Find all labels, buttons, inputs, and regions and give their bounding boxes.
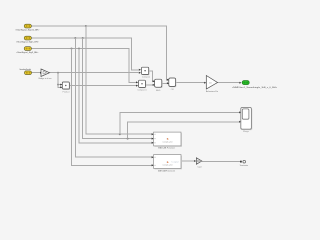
svg-text:1/n: 1/n [209,83,212,85]
terminator input port [240,161,242,163]
wire from gain G1 output to goto tag GT1 [218,82,240,84]
from tag F4 (yellow) [24,71,31,75]
node J7 on wire L3 [78,48,80,50]
wire from U2 output to logic block C input 2 [145,84,154,86]
wire branch down to product block U3 inputs [58,73,62,85]
wire L3 branch down to MATLAB2 input 2 [72,49,154,166]
terminator block [243,160,246,163]
MATLAB function block 1 [154,132,182,147]
wire L1 from tag F1 to logic block U4 top input [31,26,169,80]
port arrow into MATLAB1 in3 [152,142,154,144]
port arrow into MATLAB1 in2 [152,138,154,140]
svg-text:Cast: Cast [197,165,202,168]
wire from U1 output to logic block C input 1 [149,71,154,81]
wire from logic block U4 output to gain G1 [176,82,205,84]
port arrow into U4 in1 [167,79,169,81]
svg-text:Merge: Merge [243,131,250,133]
wire from logic block C output to logic block U4 input 2 [162,82,169,84]
tall block (multiport) [241,107,253,130]
node J9 [57,84,59,86]
block U2 (relational) [139,80,147,88]
cast triangle [196,158,201,164]
port arrow into U2 in1 [136,81,138,83]
svg-text:SomethingPossible: SomethingPossible [19,68,31,71]
wire L3 branch down to MATLAB1 input 3 [79,49,153,143]
port arrow into C in1 [153,80,155,82]
svg-text:<StartSignal_SigOut_BH>: <StartSignal_SigOut_BH> [15,28,40,31]
port arrow into U1 in1 [139,69,141,71]
port marks inside MATLAB function block 2 [155,157,156,166]
svg-text:<StartSignal_SigX_BH>: <StartSignal_SigX_BH> [16,51,39,54]
conversion triangle U0 [41,69,50,77]
port arrow into cast triangle [194,160,196,162]
wire from tag F4 to conversion triangle U0 [32,72,41,74]
wire branch up to tall block input 1 [120,112,240,134]
goto tag GT1 (green) [242,81,249,85]
node J4 on wire L2 [82,37,84,39]
port arrow into U2 in2 [136,85,138,87]
port arrow into gain G1 [204,82,206,84]
node J2 junction on MATLAB1 input 1 wire [119,133,121,135]
port arrow into U0 [40,72,42,74]
wire L2 from tag F2 to block U1 input 1 [31,38,139,70]
from tag F3 (yellow) [24,47,31,51]
wire L3 from tag F3 to block U2 input 1 [31,49,136,83]
wire from MATLAB2 output to cast triangle [181,160,196,162]
block U1 (relational) [142,67,150,75]
port arrow into U3 in1 [60,84,62,86]
logic block U4 [169,78,177,87]
node J5 junction on MATLAB1 input 2 wire [127,138,129,140]
svg-text:Product: Product [63,90,70,93]
port arrow into MATLAB1 in1 [152,133,154,135]
wire branch up to tall block input 2 [128,122,240,139]
port arrow into C in2 [153,84,155,86]
svg-text:<MMFGen1_SomethingIn_StB_v_0_B: <MMFGen1_SomethingIn_StB_v_0_BH> [232,86,278,89]
MATLAB function block 2 [154,155,182,170]
port arrow into goto tag GT1 [239,82,241,84]
from tag F2 (yellow) [24,36,31,40]
port arrow into U1 in2 [139,72,141,74]
port arrow into MATLAB2 in1 [152,156,154,158]
product block U3 [62,82,70,90]
wire from U0 output to block U1 input 2 [50,72,139,74]
node J6 on wire L3 [71,48,73,50]
wire stub to product block U3 input 2 [58,85,62,88]
logic block C [155,79,163,88]
svg-text:Compare: Compare [142,77,151,79]
wire L1 branch down to MATLAB1 input 1 [86,26,153,134]
svg-text:fi_signal: fi_signal [171,161,179,163]
port arrow into tall block in2 [239,121,241,123]
svg-text:Terminator: Terminator [240,164,249,167]
port arrow into U4 in2 [167,82,169,84]
wire from cast triangle to terminator [202,161,240,163]
node J3 on wire L2 [74,37,76,39]
svg-text:Behaviors-1/n: Behaviors-1/n [206,91,218,93]
svg-text:Compare1: Compare1 [137,90,147,92]
wire L2 branch down to MATLAB2 input 1 [75,38,153,157]
svg-text:AND: AND [156,89,161,92]
port arrow into tall block in1 [239,111,241,113]
gain G1 [206,76,217,90]
port arrow into U3 in2 [60,86,62,88]
node J1 on wire L1 [85,25,87,27]
svg-text:sample_plot: sample_plot [162,140,172,143]
svg-text:<StartSignal_SigIn_BH>: <StartSignal_SigIn_BH> [16,40,39,43]
svg-text:MATLAB Function: MATLAB Function [158,147,176,150]
from tag F1 (yellow) [24,24,31,28]
svg-text:MATLABFunction1: MATLABFunction1 [158,169,176,172]
port arrow into MATLAB2 in2 [152,164,154,166]
wire L2 branch down to MATLAB1 input 2 [83,38,154,139]
canvas background [0,0,300,187]
port marks inside MATLAB function block 1 [155,134,156,143]
wire from product U3 output to block U2 input 2 [70,85,136,87]
svg-text:Bridge in it too: Bridge in it too [39,77,53,80]
node J8 on U0 output wire [57,72,59,74]
svg-text:sample_plot: sample_plot [162,163,172,166]
